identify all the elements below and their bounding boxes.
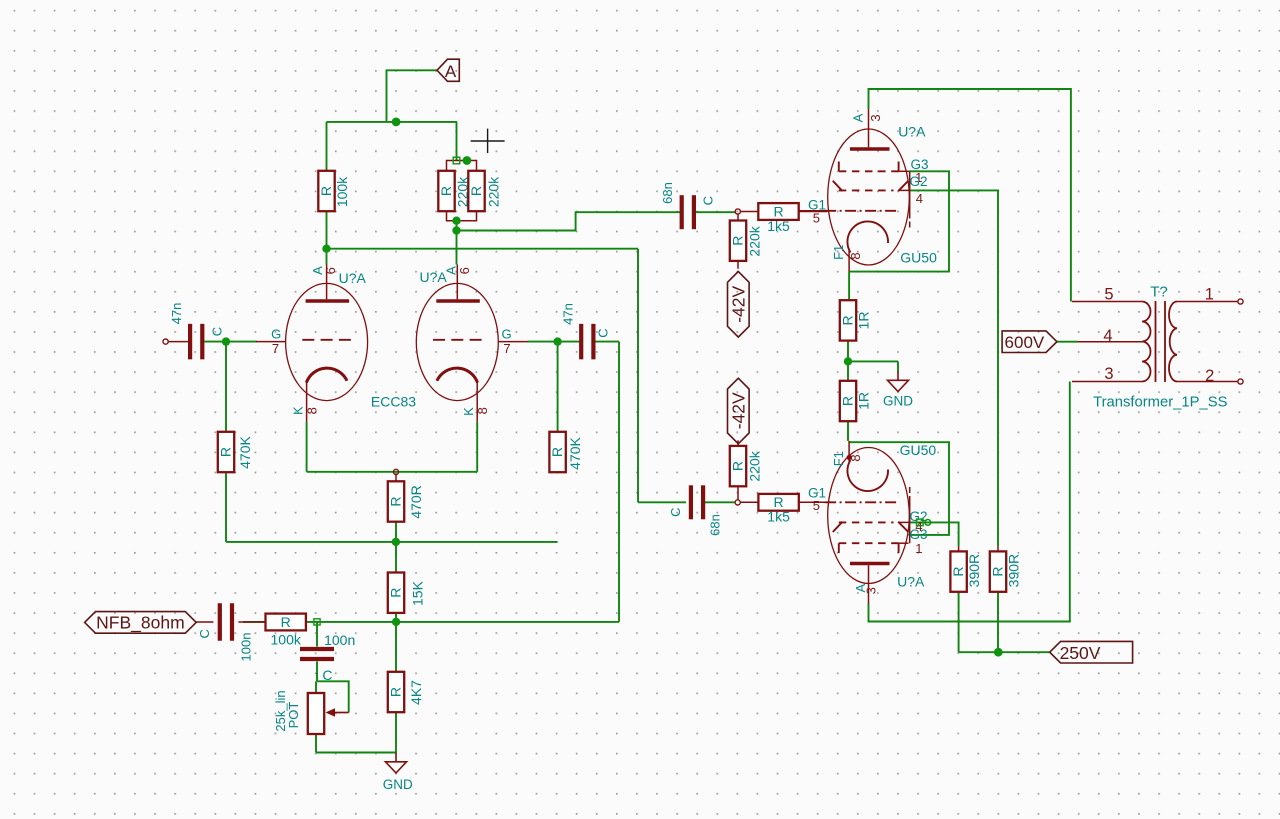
svg-text:R: R [468, 186, 484, 196]
svg-text:F1: F1 [831, 245, 846, 260]
svg-text:470K: 470K [237, 435, 253, 468]
svg-text:R: R [729, 461, 745, 471]
svg-text:U?A: U?A [339, 270, 367, 286]
svg-text:R: R [387, 588, 403, 598]
svg-text:R: R [729, 236, 745, 246]
svg-text:390R: 390R [1006, 554, 1022, 587]
svg-text:15K: 15K [410, 580, 426, 606]
svg-text:GND: GND [383, 777, 413, 792]
svg-text:3: 3 [1104, 365, 1113, 383]
svg-text:K: K [461, 407, 476, 416]
svg-text:R: R [387, 496, 403, 506]
svg-text:T?: T? [1150, 284, 1168, 301]
svg-text:C: C [210, 327, 225, 336]
svg-text:R: R [281, 614, 291, 630]
svg-text:220k: 220k [747, 450, 763, 481]
svg-text:R: R [387, 687, 403, 697]
svg-text:C: C [668, 508, 683, 517]
svg-text:1k5: 1k5 [767, 218, 790, 234]
svg-text:GU50: GU50 [900, 442, 937, 458]
svg-text:3: 3 [863, 587, 878, 594]
svg-text:47n: 47n [169, 303, 184, 325]
svg-text:100n: 100n [239, 633, 254, 662]
svg-text:F1: F1 [831, 451, 846, 466]
svg-text:C: C [322, 667, 332, 683]
svg-text:6: 6 [323, 267, 338, 274]
svg-text:Transformer_1P_SS: Transformer_1P_SS [1093, 394, 1227, 410]
svg-text:U?A: U?A [897, 573, 925, 589]
svg-text:K: K [291, 406, 306, 415]
svg-text:A: A [445, 62, 457, 81]
svg-text:4: 4 [916, 191, 923, 206]
svg-text:2: 2 [1205, 367, 1214, 385]
svg-text:7: 7 [272, 341, 279, 356]
svg-text:-42V: -42V [728, 285, 748, 322]
svg-text:GND: GND [883, 394, 913, 409]
svg-text:4K7: 4K7 [408, 680, 424, 705]
svg-text:100k: 100k [334, 176, 350, 207]
svg-text:5: 5 [813, 210, 820, 225]
svg-text:R: R [438, 186, 454, 196]
svg-text:47n: 47n [561, 303, 576, 325]
svg-text:100n: 100n [324, 632, 355, 648]
svg-text:C: C [197, 629, 212, 638]
svg-text:4: 4 [1103, 327, 1112, 345]
svg-text:7: 7 [503, 341, 510, 356]
svg-text:8: 8 [305, 407, 320, 414]
svg-text:100k: 100k [271, 632, 302, 648]
svg-text:R: R [989, 567, 1005, 577]
svg-text:R: R [217, 447, 233, 457]
svg-text:3: 3 [868, 114, 883, 121]
svg-text:C: C [595, 328, 610, 337]
svg-text:390R: 390R [966, 554, 982, 587]
svg-text:5: 5 [1104, 285, 1113, 303]
svg-text:68n: 68n [660, 182, 675, 204]
svg-text:1: 1 [1205, 285, 1214, 303]
svg-text:G3: G3 [909, 527, 927, 542]
svg-text:R: R [549, 447, 565, 457]
svg-text:U?A: U?A [898, 123, 926, 139]
svg-text:G: G [271, 326, 281, 341]
svg-text:R: R [950, 567, 966, 577]
svg-text:470K: 470K [567, 436, 583, 469]
svg-text:68n: 68n [708, 514, 723, 536]
svg-text:470R: 470R [408, 485, 424, 518]
svg-text:POT: POT [286, 702, 301, 729]
svg-text:R: R [318, 186, 334, 196]
svg-text:250V: 250V [1060, 643, 1101, 663]
svg-text:C: C [700, 196, 715, 205]
svg-text:NFB_8ohm: NFB_8ohm [96, 613, 185, 634]
svg-text:1R: 1R [856, 392, 872, 410]
svg-text:G: G [501, 326, 511, 341]
svg-text:A: A [851, 113, 866, 122]
svg-text:R: R [773, 203, 783, 219]
svg-text:600V: 600V [1005, 333, 1045, 352]
svg-text:6: 6 [457, 267, 472, 274]
svg-text:G2: G2 [909, 174, 927, 189]
svg-text:R: R [839, 396, 855, 406]
svg-text:R: R [839, 315, 855, 325]
svg-text:1R: 1R [856, 312, 872, 330]
svg-text:U?A: U?A [420, 269, 448, 285]
svg-text:1k5: 1k5 [767, 508, 790, 524]
svg-text:220k: 220k [486, 176, 502, 207]
svg-text:-42V: -42V [728, 392, 748, 429]
svg-text:ECC83: ECC83 [371, 394, 416, 410]
svg-text:8: 8 [475, 407, 490, 414]
svg-text:220k: 220k [747, 225, 763, 256]
svg-text:5: 5 [813, 498, 820, 513]
svg-text:GU50: GU50 [900, 250, 937, 266]
svg-text:8: 8 [848, 252, 863, 259]
svg-text:1: 1 [915, 541, 922, 556]
